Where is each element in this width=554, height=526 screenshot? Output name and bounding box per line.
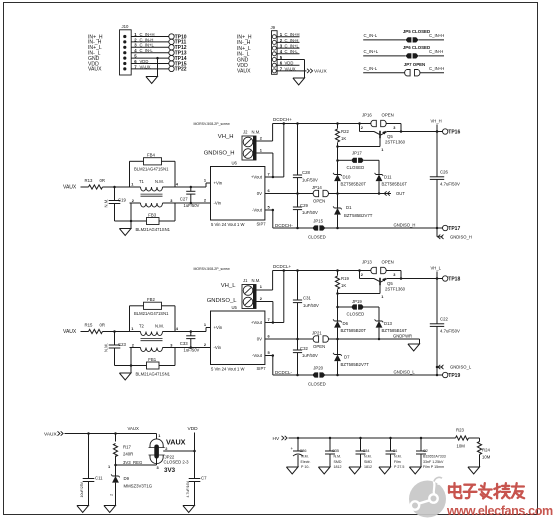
node junction R17 top bbox=[114, 432, 117, 435]
transistor Q6 2STF1360 bbox=[359, 271, 361, 279]
test point TP11 bbox=[169, 39, 174, 44]
svg-text:SIP7: SIP7 bbox=[257, 222, 267, 227]
zener diode D1 BZT585B2V7T bbox=[337, 194, 339, 209]
svg-text:CLOSED: CLOSED bbox=[308, 234, 326, 239]
svg-text:OPEN: OPEN bbox=[382, 260, 394, 265]
svg-text:C1: C1 bbox=[393, 449, 398, 453]
svg-text:JP13: JP13 bbox=[362, 260, 372, 265]
capacitor C29 1uF/50V bbox=[297, 194, 299, 208]
svg-text:GNDISO_L: GNDISO_L bbox=[450, 365, 472, 370]
wire VAUX to R15 bbox=[81, 331, 89, 333]
port OUT bbox=[387, 191, 389, 195]
svg-text:BLM21AG471SN1: BLM21AG471SN1 bbox=[136, 227, 171, 232]
svg-text:OPEN: OPEN bbox=[313, 199, 325, 204]
test point TP19 bbox=[436, 374, 439, 377]
ferrite bead FB4 BLM21AG471SN1 bbox=[129, 161, 131, 187]
svg-text:N.M.: N.M. bbox=[252, 129, 261, 134]
svg-text:+Vout: +Vout bbox=[251, 175, 263, 180]
wire VAUX rail bbox=[65, 433, 157, 435]
jumper JP19 CLOSED bbox=[336, 306, 339, 309]
svg-text:DCDCL+: DCDCL+ bbox=[273, 264, 292, 269]
svg-text:C31: C31 bbox=[303, 295, 311, 300]
svg-text:JP17: JP17 bbox=[352, 150, 362, 155]
svg-text:R22: R22 bbox=[341, 129, 349, 134]
svg-text:VAUX: VAUX bbox=[140, 64, 151, 69]
resistor R22 1K bbox=[336, 122, 339, 125]
svg-text:1uF/50V: 1uF/50V bbox=[303, 303, 319, 308]
svg-text:D11: D11 bbox=[384, 174, 392, 179]
svg-text:JP7 OPEN: JP7 OPEN bbox=[404, 62, 425, 67]
svg-text:7: 7 bbox=[268, 171, 270, 176]
wire +Vout to rail riser lower bbox=[265, 322, 284, 324]
zener diode D6 BZT585B20T bbox=[337, 294, 339, 322]
svg-text:R13: R13 bbox=[85, 178, 93, 183]
svg-text:D7: D7 bbox=[344, 354, 350, 359]
jumper JP16 OPEN bbox=[358, 122, 361, 125]
svg-text:R23: R23 bbox=[456, 428, 464, 433]
capacitor C34 N.M. SMD 1812 bbox=[359, 437, 362, 440]
svg-text:R24: R24 bbox=[482, 447, 490, 452]
svg-text:10M: 10M bbox=[482, 454, 491, 459]
svg-text:C33: C33 bbox=[180, 341, 188, 346]
wire Q6 collector to VH_L line bbox=[387, 278, 443, 280]
svg-text:C32: C32 bbox=[300, 346, 308, 351]
svg-text:JP15: JP15 bbox=[313, 219, 323, 224]
svg-text:5 Vin 24 Vout 1 W: 5 Vin 24 Vout 1 W bbox=[211, 222, 244, 227]
svg-text:VDD: VDD bbox=[140, 59, 149, 64]
svg-text:Electr.: Electr. bbox=[301, 460, 311, 464]
svg-text:VAUX: VAUX bbox=[88, 67, 102, 73]
svg-text:10uF/25V: 10uF/25V bbox=[80, 481, 84, 497]
svg-text:J10: J10 bbox=[122, 24, 130, 29]
ferrite bead FB3 BLM21AG471SN1 bbox=[115, 220, 147, 222]
test point TP15 bbox=[169, 61, 174, 66]
svg-text:C_IN-H: C_IN-H bbox=[285, 38, 299, 43]
svg-text:C34: C34 bbox=[363, 449, 370, 453]
capacitor C1 N.M. Film P 27.5 bbox=[389, 437, 392, 440]
svg-text:VAUX: VAUX bbox=[314, 69, 328, 75]
transistor Q5 2STF1360 bbox=[359, 124, 361, 132]
test point TP10 bbox=[169, 34, 174, 39]
wire Q6 base line bbox=[336, 292, 339, 295]
svg-text:C23: C23 bbox=[118, 342, 126, 347]
ground symbol below D9 bbox=[104, 506, 116, 513]
svg-text:BLM21AG471SN1: BLM21AG471SN1 bbox=[134, 311, 169, 316]
svg-text:BZT585B20T: BZT585B20T bbox=[341, 328, 367, 333]
resistor R19 1K bbox=[336, 269, 339, 272]
svg-text:SIP7: SIP7 bbox=[257, 366, 267, 371]
svg-text:D10: D10 bbox=[343, 174, 351, 179]
svg-text:C_IN-L: C_IN-L bbox=[364, 33, 378, 38]
svg-text:1uF/50V: 1uF/50V bbox=[302, 210, 318, 215]
svg-text:www.elecfans.com: www.elecfans.com bbox=[446, 504, 553, 518]
svg-text:BZT585B20T: BZT585B20T bbox=[341, 181, 367, 186]
wire +Vout to rail riser bbox=[265, 176, 284, 178]
svg-text:1812: 1812 bbox=[364, 465, 372, 469]
wire U6 -Vout to DCDCH- rail bbox=[265, 209, 273, 211]
svg-text:5 Vin 24 Vout 1 W: 5 Vin 24 Vout 1 W bbox=[211, 367, 244, 372]
svg-text:2: 2 bbox=[110, 494, 114, 496]
wire R13 to T1 pin1 bbox=[103, 186, 130, 188]
test point TP13 bbox=[169, 50, 174, 55]
wire R23 to R24 bbox=[469, 437, 480, 439]
capacitor C23 N.M. bbox=[114, 332, 116, 346]
wire R15 to T2 pin1 bbox=[103, 331, 130, 333]
svg-text:J2: J2 bbox=[243, 129, 248, 134]
svg-text:10M: 10M bbox=[457, 444, 466, 449]
svg-text:FB3: FB3 bbox=[148, 212, 156, 217]
capacitor C19 N.M. bbox=[114, 187, 116, 201]
svg-text:0V: 0V bbox=[257, 191, 262, 196]
svg-text:N.M.: N.M. bbox=[104, 199, 109, 208]
svg-text:N.M.: N.M. bbox=[394, 455, 402, 459]
svg-text:FB1: FB1 bbox=[148, 357, 156, 362]
svg-text:3V3: 3V3 bbox=[164, 467, 176, 474]
svg-text:J9: J9 bbox=[271, 25, 276, 30]
zener diode D13 BZT585B16T bbox=[376, 320, 382, 322]
port GNDISO_L bbox=[436, 366, 439, 369]
capacitor C7 4.7uF/16V bbox=[189, 478, 201, 480]
svg-text:+: + bbox=[291, 446, 294, 451]
svg-text:FB4: FB4 bbox=[147, 152, 155, 157]
capacitor C2 B32652A7333 33nF 1.25kV bbox=[420, 437, 423, 440]
svg-text:C35: C35 bbox=[332, 449, 339, 453]
jumper JP17 CLOSED bbox=[336, 159, 339, 162]
svg-text:JP19: JP19 bbox=[352, 299, 362, 304]
capacitor C33 1uF/50V bbox=[190, 330, 193, 333]
test point TP18 bbox=[436, 277, 439, 280]
jumper JP22 CLOSED 2-3 bbox=[156, 434, 158, 440]
svg-text:VH_H: VH_H bbox=[218, 134, 234, 140]
svg-text:0R: 0R bbox=[100, 323, 106, 328]
svg-text:TP19: TP19 bbox=[448, 373, 460, 379]
J9 pin5 ground wire bbox=[304, 60, 306, 79]
DC/DC module U5 bbox=[211, 311, 265, 365]
svg-text:C27: C27 bbox=[180, 196, 188, 201]
test point TP14 bbox=[169, 55, 174, 60]
svg-text:N.M.: N.M. bbox=[252, 278, 261, 283]
svg-text:1uF/50V: 1uF/50V bbox=[184, 203, 200, 208]
svg-text:GNDISO_H: GNDISO_H bbox=[204, 151, 235, 157]
svg-text:T2: T2 bbox=[139, 324, 145, 329]
svg-text:D9: D9 bbox=[124, 476, 130, 481]
svg-text:Q5: Q5 bbox=[387, 134, 393, 139]
svg-text:BZT585B2V7T: BZT585B2V7T bbox=[344, 213, 373, 218]
svg-text:VAUX: VAUX bbox=[237, 69, 251, 75]
svg-text:0V: 0V bbox=[257, 337, 262, 342]
zener diode D10 BZT585B20T bbox=[337, 147, 339, 175]
svg-text:OPEN: OPEN bbox=[382, 113, 394, 118]
svg-text:C_IN+L: C_IN+L bbox=[364, 49, 379, 54]
svg-text:C_IN-H: C_IN-H bbox=[429, 49, 443, 54]
svg-text:C_IN-H: C_IN-H bbox=[140, 37, 154, 42]
ground symbol below C7 bbox=[183, 506, 195, 513]
svg-text:TP18: TP18 bbox=[448, 276, 460, 282]
J10 pin5 ground stem bbox=[156, 57, 159, 60]
svg-text:C19: C19 bbox=[118, 197, 126, 202]
svg-text:2STF1360: 2STF1360 bbox=[385, 287, 406, 292]
resistor R17 240R bbox=[115, 434, 117, 442]
wire Q5 collector to VH_H line bbox=[387, 131, 443, 133]
resistor R24 10M bbox=[477, 442, 481, 455]
node junction C11 bbox=[87, 432, 90, 435]
svg-text:3V3_REG: 3V3_REG bbox=[123, 460, 143, 465]
svg-text:D6: D6 bbox=[343, 321, 349, 326]
svg-text:JP6 CLOSED: JP6 CLOSED bbox=[403, 45, 430, 50]
wire VAUX to R13 bbox=[81, 186, 89, 188]
svg-text:R19: R19 bbox=[341, 276, 349, 281]
svg-text:VH_L: VH_L bbox=[431, 266, 442, 271]
capacitor C36 N.M. Electr polarized bbox=[297, 437, 300, 440]
svg-text:VAUX: VAUX bbox=[128, 426, 140, 431]
svg-text:JP14: JP14 bbox=[312, 185, 322, 190]
svg-text:MMSZ3V3T1G: MMSZ3V3T1G bbox=[124, 483, 153, 488]
svg-text:C11: C11 bbox=[95, 475, 103, 480]
J9 pin7 VAUX port bbox=[300, 70, 307, 72]
svg-text:D13: D13 bbox=[384, 321, 392, 326]
svg-text:C_IN+H: C_IN+H bbox=[285, 32, 300, 37]
watermark text elecfans chinese bbox=[449, 483, 524, 498]
DC/DC module U6 bbox=[211, 167, 265, 221]
svg-text:240R: 240R bbox=[123, 451, 133, 456]
svg-text:C_IN+H: C_IN+H bbox=[140, 32, 155, 37]
wire U6 0V line bbox=[265, 193, 314, 195]
wire T2 pin4 to U5 +Vin bbox=[175, 331, 206, 333]
svg-text:JP21: JP21 bbox=[312, 330, 322, 335]
capacitor C11 10uF/25V bbox=[88, 434, 90, 479]
svg-text:1812: 1812 bbox=[334, 465, 342, 469]
svg-text:C_IN+L: C_IN+L bbox=[140, 43, 155, 48]
wire JP22 pin3 to 3V3 bbox=[156, 457, 158, 465]
svg-text:TP17: TP17 bbox=[448, 226, 460, 232]
svg-text:U6: U6 bbox=[232, 161, 238, 166]
ground symbol below J10 bbox=[146, 77, 158, 84]
svg-text:VDD: VDD bbox=[285, 61, 294, 66]
svg-text:C26: C26 bbox=[440, 170, 448, 175]
svg-text:SMD: SMD bbox=[334, 460, 342, 464]
svg-text:BLM21AG471SN1: BLM21AG471SN1 bbox=[134, 166, 169, 171]
port GNDISO_H bbox=[436, 228, 438, 237]
wire T1 pin3 to U6 -Vin bbox=[175, 202, 211, 204]
svg-text:TP16: TP16 bbox=[448, 129, 460, 135]
VDD rail wire bbox=[194, 433, 196, 479]
svg-text:VAUX: VAUX bbox=[63, 185, 77, 191]
svg-text:BZT585B16T: BZT585B16T bbox=[382, 328, 408, 333]
svg-text:C29: C29 bbox=[300, 203, 308, 208]
svg-text:T1: T1 bbox=[139, 179, 145, 184]
wire U5 0V line bbox=[265, 338, 314, 340]
test point TP12 bbox=[169, 45, 174, 50]
ground below C36 bbox=[286, 467, 298, 474]
svg-text:4.7uF/50V: 4.7uF/50V bbox=[440, 328, 460, 333]
svg-text:1uF/50V: 1uF/50V bbox=[302, 178, 318, 183]
HV rail wire bbox=[289, 437, 456, 439]
svg-text:C_IN+L: C_IN+L bbox=[285, 44, 300, 49]
svg-text:C_IN-L: C_IN-L bbox=[364, 66, 378, 71]
test point TP22 bbox=[169, 66, 174, 71]
svg-text:1K: 1K bbox=[341, 283, 346, 288]
jumper JP13 OPEN bbox=[358, 269, 361, 272]
zener diode D11 BZT585B16T bbox=[376, 174, 382, 176]
test point TP16 bbox=[436, 130, 439, 133]
svg-text:BZT585B2V7T: BZT585B2V7T bbox=[341, 362, 370, 367]
J9 pin wires and pin names bbox=[277, 36, 299, 38]
svg-text:GNDISO_H: GNDISO_H bbox=[450, 235, 472, 240]
svg-text:Film P 15mm: Film P 15mm bbox=[423, 465, 444, 469]
svg-text:JP16: JP16 bbox=[362, 113, 372, 118]
svg-text:CLOSED: CLOSED bbox=[347, 312, 365, 317]
svg-text:-Vout: -Vout bbox=[252, 208, 263, 213]
svg-text:MORSV-508-2P_screw: MORSV-508-2P_screw bbox=[194, 267, 231, 271]
svg-text:D1: D1 bbox=[346, 205, 352, 210]
svg-text:C22: C22 bbox=[440, 317, 448, 322]
svg-text:0R: 0R bbox=[100, 178, 106, 183]
wire U5 -Vout to DCDCL- rail bbox=[265, 355, 273, 357]
wire T1 pin4 to U6 +Vin bbox=[175, 186, 206, 188]
ground symbol below J9 bbox=[293, 78, 305, 85]
wire T2 pin3 to U5 -Vin bbox=[175, 347, 211, 349]
watermark logo disc bbox=[409, 477, 446, 517]
node junction C23 top bbox=[113, 330, 116, 333]
svg-text:OPEN: OPEN bbox=[313, 344, 325, 349]
capacitor C28 1uF/50V bbox=[296, 122, 299, 125]
connector J10 bbox=[120, 30, 132, 75]
svg-text:OUT: OUT bbox=[396, 191, 405, 196]
svg-text:BLM21AG471SN1: BLM21AG471SN1 bbox=[136, 371, 171, 376]
svg-text:N.M.: N.M. bbox=[334, 455, 342, 459]
svg-text:VAUX: VAUX bbox=[285, 66, 296, 71]
node junction C19 top bbox=[113, 186, 116, 189]
svg-text:DCDCL-: DCDCL- bbox=[275, 370, 293, 375]
svg-text:N.M.: N.M. bbox=[104, 343, 109, 352]
svg-text:DCDCH-: DCDCH- bbox=[275, 223, 293, 228]
svg-text:GNDISO_L: GNDISO_L bbox=[394, 370, 416, 375]
svg-text:N.M.: N.M. bbox=[301, 455, 309, 459]
svg-text:C28: C28 bbox=[302, 170, 310, 175]
zener diode D9 MMSZ3V3T1G bbox=[115, 465, 117, 476]
svg-text:N.M.: N.M. bbox=[155, 324, 164, 329]
capacitor C35 N.M. SMD 1812 bbox=[329, 437, 332, 440]
svg-text:VAUX: VAUX bbox=[44, 431, 58, 437]
J10 pin wires and pin names bbox=[131, 36, 169, 38]
svg-text:N.M.: N.M. bbox=[155, 179, 164, 184]
svg-text:P 27.5: P 27.5 bbox=[394, 465, 404, 469]
svg-text:JP5 CLOSED: JP5 CLOSED bbox=[403, 29, 430, 34]
svg-text:DCDCH+: DCDCH+ bbox=[273, 117, 292, 122]
svg-text:VH_H: VH_H bbox=[431, 119, 442, 124]
svg-text:GNDISO_L: GNDISO_L bbox=[207, 298, 238, 304]
svg-text:33nF 1.25kV: 33nF 1.25kV bbox=[423, 460, 444, 464]
svg-text:GNDISO_H: GNDISO_H bbox=[394, 223, 416, 228]
svg-text:C36: C36 bbox=[300, 449, 307, 453]
svg-text:VH_L: VH_L bbox=[221, 283, 236, 289]
svg-text:Film: Film bbox=[394, 460, 401, 464]
capacitor C32 1uF/50V bbox=[297, 339, 299, 350]
svg-text:SMD: SMD bbox=[364, 460, 372, 464]
svg-text:-Vin: -Vin bbox=[214, 201, 222, 206]
capacitor C22 4.7uF/50V bbox=[436, 277, 439, 280]
zener diode D7 BZT585B2V7T bbox=[337, 339, 339, 355]
svg-text:Q5: Q5 bbox=[387, 281, 393, 286]
svg-text:-Vout: -Vout bbox=[252, 353, 263, 358]
wire JP22 pin2 to VDD rail bbox=[163, 450, 194, 452]
svg-text:C_IN-L: C_IN-L bbox=[285, 49, 299, 54]
svg-text:R17: R17 bbox=[123, 444, 131, 449]
capacitor C27 1uF/50V bbox=[190, 186, 193, 189]
ground symbol below C11 bbox=[77, 506, 89, 513]
svg-text:CLOSED: CLOSED bbox=[308, 381, 326, 386]
svg-text:2STF1360: 2STF1360 bbox=[385, 140, 406, 145]
svg-text:-Vin: -Vin bbox=[214, 345, 222, 350]
svg-text:VAUX: VAUX bbox=[166, 438, 186, 447]
wire Q5 base line bbox=[336, 145, 339, 148]
svg-text:4.7uF/16V: 4.7uF/16V bbox=[186, 480, 190, 497]
svg-text:P 10-: P 10- bbox=[301, 465, 310, 469]
capacitor C26 4.7uF/50V bbox=[436, 130, 439, 133]
svg-text:MORSV-508-2P_screw: MORSV-508-2P_screw bbox=[194, 122, 231, 126]
svg-text:FB2: FB2 bbox=[147, 297, 155, 302]
svg-text:C_IN+H: C_IN+H bbox=[429, 66, 444, 71]
ground symbol lower filter bbox=[130, 364, 133, 367]
ferrite bead FB2 BLM21AG471SN1 bbox=[129, 306, 131, 332]
svg-text:4.7uF/50V: 4.7uF/50V bbox=[440, 181, 460, 186]
ground symbol upper filter bbox=[130, 220, 133, 223]
ferrite bead FB1 BLM21AG471SN1 bbox=[115, 365, 147, 367]
svg-text:7: 7 bbox=[268, 317, 270, 322]
svg-text:1uF/50V: 1uF/50V bbox=[302, 353, 318, 358]
svg-text:U5: U5 bbox=[232, 305, 238, 310]
ground below R24 bbox=[468, 467, 480, 474]
capacitor C31 1uF/50V bbox=[296, 269, 299, 272]
svg-text:TP22: TP22 bbox=[175, 67, 187, 73]
svg-text:C_IN+H: C_IN+H bbox=[429, 33, 444, 38]
svg-text:J1: J1 bbox=[243, 278, 248, 283]
svg-text:VAUX: VAUX bbox=[63, 329, 77, 335]
svg-text:C2: C2 bbox=[423, 449, 428, 453]
svg-text:C7: C7 bbox=[201, 475, 207, 480]
svg-text:HV: HV bbox=[273, 436, 280, 442]
svg-text:CLOSED: CLOSED bbox=[347, 165, 365, 170]
svg-text:B32652A7333: B32652A7333 bbox=[423, 455, 446, 459]
svg-text:N.M.: N.M. bbox=[364, 455, 372, 459]
svg-text:+Vin: +Vin bbox=[214, 181, 223, 186]
test point TP17 bbox=[436, 227, 439, 230]
svg-text:+Vin: +Vin bbox=[214, 325, 223, 330]
svg-text:1K: 1K bbox=[341, 136, 346, 141]
svg-text:C_IN-L: C_IN-L bbox=[140, 48, 154, 53]
connector J9 bbox=[272, 31, 278, 75]
svg-text:GNDPWR: GNDPWR bbox=[393, 334, 412, 339]
svg-text:CLOSED 2-3: CLOSED 2-3 bbox=[164, 460, 190, 465]
svg-text:+Vout: +Vout bbox=[251, 320, 263, 325]
svg-text:BZT585B16T: BZT585B16T bbox=[382, 181, 408, 186]
svg-text:1uF/50V: 1uF/50V bbox=[184, 348, 200, 353]
svg-text:VDD: VDD bbox=[188, 426, 199, 432]
svg-text:R15: R15 bbox=[85, 323, 93, 328]
svg-text:JP20: JP20 bbox=[313, 366, 323, 371]
